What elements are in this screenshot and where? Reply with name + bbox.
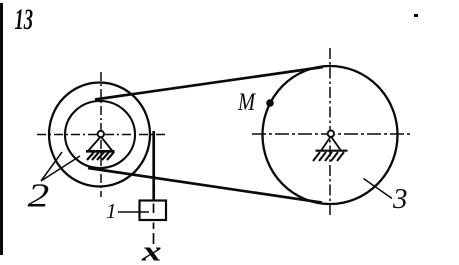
point M dot — [266, 99, 274, 107]
pulley 2 outer circle — [49, 83, 150, 187]
svg-text:x: x — [141, 235, 162, 265]
cord from pulley 2 to weight — [152, 131, 155, 201]
svg-text:13: 13 — [15, 4, 34, 36]
pulley 2 horizontal centerline — [37, 134, 167, 136]
svg-text:3: 3 — [392, 183, 408, 215]
pivot support of pulley 2 — [86, 137, 115, 161]
svg-text:1: 1 — [106, 199, 117, 223]
left border bar — [0, 3, 3, 255]
leader line of label 3 — [364, 179, 393, 199]
pivot support of pulley 3 — [313, 136, 348, 161]
x axis dashed line — [153, 204, 155, 245]
belt bottom run — [88, 168, 322, 203]
belt top run — [95, 67, 323, 100]
pulley 3 vertical centerline — [329, 48, 331, 218]
pulley 2 vertical centerline — [100, 72, 102, 197]
stray mark top right — [414, 14, 418, 17]
pulley 3 circle — [263, 66, 398, 204]
pin of pulley 2 — [98, 131, 104, 137]
leader lines of label 2 — [41, 152, 80, 181]
weight block 1 — [140, 201, 167, 221]
leader line of label 1 — [118, 211, 149, 213]
pulley 3 horizontal centerline — [252, 133, 413, 135]
pulley 2 inner circle — [65, 101, 135, 168]
pin of pulley 3 — [328, 131, 334, 137]
svg-text:2: 2 — [28, 177, 50, 214]
svg-text:M: M — [237, 88, 257, 115]
